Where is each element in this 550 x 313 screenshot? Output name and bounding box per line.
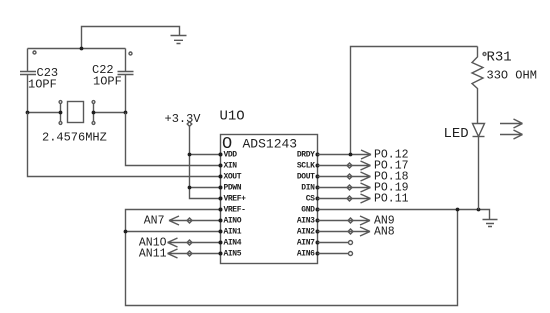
power +3.3V [165, 112, 221, 199]
ground (top) [171, 36, 187, 44]
wire DRDY to P0.12 and LED rail [318, 47, 478, 157]
wire AIN6 stub [318, 252, 353, 256]
pin dots left [219, 153, 223, 256]
svg-text:33O OHM: 33O OHM [487, 69, 537, 83]
node junction top rail [80, 47, 84, 51]
wire cap top rail [28, 48, 126, 50]
LED [444, 119, 523, 210]
wire VREF- / loop net [126, 210, 458, 306]
svg-text:XOUT: XOUT [224, 173, 242, 182]
svg-text:XIN: XIN [224, 162, 238, 171]
port P0.19 [318, 182, 409, 195]
svg-text:PDWN: PDWN [224, 184, 242, 193]
svg-text:GND: GND [301, 206, 315, 215]
svg-text:U1O: U1O [220, 109, 245, 125]
wire XOUT net [28, 113, 221, 177]
svg-text:LED: LED [444, 126, 469, 142]
svg-text:AIN6: AIN6 [297, 250, 315, 259]
wire crystal left [28, 112, 61, 114]
port P0.11 [318, 193, 409, 206]
svg-text:1OPF: 1OPF [93, 75, 122, 89]
pin labels left [224, 151, 247, 259]
port AN11 [139, 248, 221, 261]
svg-text:DOUT: DOUT [297, 173, 315, 182]
port P0.18 [318, 171, 409, 184]
svg-text:AIN2: AIN2 [297, 228, 315, 237]
ground (right) [483, 220, 498, 227]
svg-text:AIN1: AIN1 [224, 228, 242, 237]
port AN10 [139, 237, 221, 250]
svg-text:AIN4: AIN4 [224, 239, 242, 248]
wire top ground net [82, 27, 180, 49]
svg-text:VREF-: VREF- [224, 206, 246, 215]
capacitor C22 [92, 49, 134, 113]
svg-text:AIN5: AIN5 [224, 250, 242, 259]
svg-text:2.4576MHZ: 2.4576MHZ [42, 131, 107, 145]
svg-text:+3.3V: +3.3V [165, 112, 202, 126]
pin dots right [316, 153, 320, 256]
svg-text:PO.11: PO.11 [374, 193, 409, 206]
svg-text:VDD: VDD [224, 151, 238, 160]
svg-text:DIN: DIN [301, 184, 315, 193]
svg-text:AN8: AN8 [374, 226, 395, 239]
IC U10 ADS1243 [220, 109, 318, 264]
svg-text:AIN7: AIN7 [297, 239, 315, 248]
svg-text:AN7: AN7 [144, 215, 165, 228]
svg-text:SCLK: SCLK [297, 162, 315, 171]
node AIN1 junction [124, 230, 128, 234]
wire AIN7 stub [318, 241, 353, 245]
resistor R31 [472, 47, 537, 124]
svg-text:ADS1243: ADS1243 [243, 137, 298, 152]
capacitor C23 [20, 49, 58, 113]
svg-text:R31: R31 [487, 50, 512, 66]
port AN7 [144, 215, 221, 228]
wire GND net [318, 208, 490, 220]
port AN9 [318, 215, 395, 228]
crystal 2.4576MHZ [42, 101, 107, 145]
port AN8 [318, 226, 395, 239]
node crystal junctions [26, 111, 128, 115]
node marker right [129, 52, 132, 55]
svg-text:AINO: AINO [224, 217, 242, 226]
node marker left [33, 51, 36, 54]
port P0.17 [318, 160, 409, 173]
port P0.12 [361, 149, 409, 162]
svg-text:VREF+: VREF+ [224, 195, 247, 204]
wire crystal right [94, 112, 126, 114]
wire XIN net [126, 113, 221, 166]
wire AIN1 [126, 231, 221, 233]
svg-text:DRDY: DRDY [297, 151, 315, 160]
svg-text:AIN3: AIN3 [297, 217, 315, 226]
svg-text:1OPF: 1OPF [28, 78, 57, 92]
pin labels right [297, 151, 315, 259]
svg-text:AN11: AN11 [139, 248, 167, 261]
svg-text:CS: CS [306, 195, 315, 204]
